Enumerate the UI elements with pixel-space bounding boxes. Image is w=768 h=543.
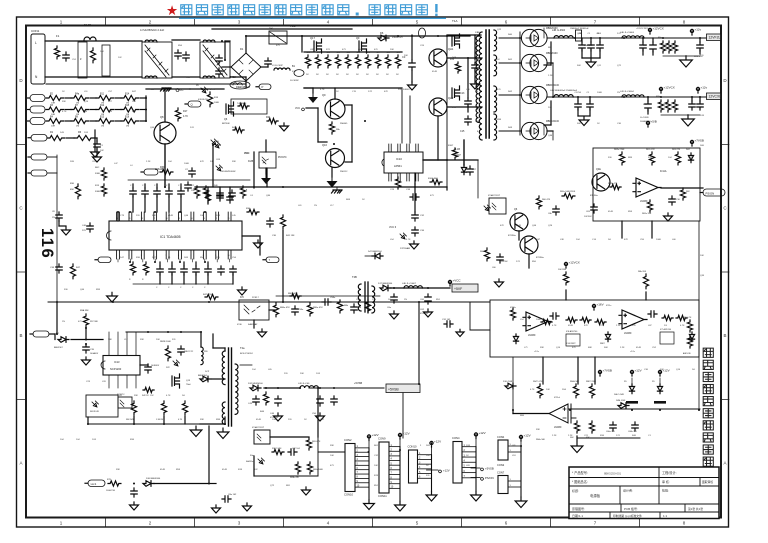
svg-text:IC3A PC817: IC3A PC817	[488, 194, 501, 197]
svg-text:+12VCX R6?q: +12VCX R6?q	[636, 28, 649, 30]
svg-text:10K R80: 10K R80	[558, 269, 567, 271]
svg-text:D1: D1	[240, 47, 244, 51]
svg-text:3: 3	[141, 255, 142, 257]
svg-text:F48 RC48: F48 RC48	[90, 411, 99, 413]
svg-text:PC817: PC817	[252, 297, 259, 299]
svg-text:VCC: VCC	[178, 88, 184, 92]
svg-text:39K: 39K	[134, 395, 138, 397]
svg-text:IC13: IC13	[114, 360, 120, 364]
svg-text:R62a 39K: R62a 39K	[642, 213, 652, 215]
svg-text:12VF2L: 12VF2L	[709, 35, 721, 39]
svg-text:D16 4148: D16 4148	[503, 381, 513, 383]
svg-text:116: 116	[38, 228, 56, 259]
svg-text:MBRF20100: MBRF20100	[546, 85, 560, 87]
svg-text:+12v: +12v	[695, 28, 702, 32]
svg-text:4.1B: 4.1B	[455, 148, 460, 151]
svg-text:1N0EI0uF: 1N0EI0uF	[584, 45, 594, 47]
svg-text:L4E JL-C0604: L4E JL-C0604	[620, 32, 635, 34]
svg-text:10K: 10K	[546, 389, 550, 391]
svg-text:IC10: IC10	[396, 157, 402, 161]
svg-text:R100 36K: R100 36K	[428, 178, 438, 180]
svg-text:T1A: T1A	[452, 19, 458, 23]
svg-text:C13: C13	[460, 92, 465, 95]
svg-text:4148: 4148	[168, 215, 174, 217]
svg-text:1M: 1M	[126, 126, 129, 128]
svg-text:* 产品型号:: * 产品型号:	[572, 470, 588, 475]
svg-text:+12V: +12V	[372, 433, 379, 437]
svg-text:20K: 20K	[660, 369, 664, 371]
svg-text:20K: 20K	[390, 49, 394, 51]
svg-text:B: B	[19, 333, 22, 338]
svg-text:47K: 47K	[584, 325, 588, 327]
svg-text:CON4: CON4	[452, 436, 460, 440]
svg-text:QH2: QH2	[448, 96, 454, 100]
svg-text:日期/1.1: 日期/1.1	[572, 513, 583, 518]
svg-text:39K: 39K	[62, 101, 66, 103]
svg-text:4.7K: 4.7K	[210, 89, 215, 91]
svg-text:R6q: R6q	[658, 37, 662, 39]
svg-text:IC5: IC5	[240, 296, 244, 299]
svg-text:39K: 39K	[116, 469, 120, 471]
svg-text:+VCC: +VCC	[453, 279, 462, 283]
svg-text:+7VSB: +7VSB	[695, 139, 704, 143]
svg-text:1M: 1M	[101, 126, 104, 128]
svg-text:R6C: R6C	[95, 167, 100, 169]
svg-text:17: 17	[153, 218, 155, 220]
svg-text:R60 47K: R60 47K	[542, 199, 551, 201]
svg-text:LM339: LM339	[554, 426, 562, 429]
svg-text:100K: 100K	[656, 239, 662, 241]
svg-text:2.2K: 2.2K	[146, 161, 151, 163]
svg-text:L4E JL-C0607: L4E JL-C0607	[402, 283, 417, 285]
svg-text:BLKLF01: BLKLF01	[279, 126, 288, 128]
svg-text:100K: 100K	[184, 163, 190, 165]
svg-text:CON2: CON2	[497, 463, 505, 467]
svg-text:1.5K R88?: 1.5K R88?	[566, 343, 576, 345]
svg-text:39K: 39K	[140, 339, 144, 341]
svg-text:IC11A: IC11A	[660, 170, 667, 173]
svg-text:LM339: LM339	[528, 334, 536, 337]
svg-text:CON7: CON7	[497, 471, 505, 475]
svg-text:R12: R12	[100, 105, 105, 107]
svg-text:100K: 100K	[272, 419, 278, 421]
svg-text:检验:: 检验:	[662, 488, 669, 493]
svg-text:+12V: +12V	[635, 369, 642, 373]
svg-text:IC11b: IC11b	[510, 307, 516, 309]
svg-text:2.2K: 2.2K	[568, 435, 573, 437]
svg-text:D6M 4148: D6M 4148	[616, 400, 626, 402]
svg-text:D6: D6	[380, 31, 384, 35]
svg-text:4.7K: 4.7K	[306, 59, 311, 61]
svg-text:R63 27K: R63 27K	[672, 149, 681, 151]
svg-text:39K: 39K	[200, 419, 204, 421]
svg-text:10K: 10K	[374, 465, 378, 467]
svg-text:20K: 20K	[548, 107, 552, 109]
svg-text:2.2K: 2.2K	[616, 325, 621, 327]
svg-text:Q10: Q10	[322, 143, 327, 147]
svg-text:+5VSB: +5VSB	[354, 381, 362, 385]
svg-text:BEER164: BEER164	[198, 375, 208, 377]
svg-text:R63b 47K: R63b 47K	[290, 477, 300, 479]
svg-text:1.3K R47: 1.3K R47	[156, 419, 165, 421]
svg-text:R9A 39K: R9A 39K	[80, 309, 89, 312]
svg-text:6: 6	[178, 255, 179, 257]
svg-text:R107: R107	[455, 154, 461, 157]
svg-text:R61 4.7K: R61 4.7K	[646, 149, 655, 151]
svg-text:R17: R17	[183, 110, 188, 113]
svg-text:C6P 104: C6P 104	[292, 448, 301, 450]
svg-text:4.7K: 4.7K	[62, 111, 67, 113]
svg-text:IC11c: IC11c	[606, 305, 612, 307]
svg-text:39K: 39K	[108, 339, 112, 341]
svg-text:20K: 20K	[300, 373, 304, 375]
svg-text:4148/VFUK6W: 4148/VFUK6W	[222, 171, 235, 173]
svg-text:R80a 47K: R80a 47K	[313, 307, 323, 309]
svg-text:14: 14	[190, 218, 192, 220]
svg-text:47K: 47K	[500, 225, 504, 227]
svg-text:+12V: +12V	[443, 469, 450, 473]
svg-text:BEER107: BEER107	[54, 347, 64, 349]
svg-text:L4B JL-0604: L4B JL-0604	[552, 30, 566, 32]
svg-text:+5/B: +5/B	[651, 120, 657, 124]
svg-text:100K: 100K	[214, 102, 220, 104]
svg-text:1N: 1N	[314, 205, 317, 207]
svg-text:R41 13K: R41 13K	[286, 235, 295, 237]
svg-text:470U10V: 470U10V	[420, 313, 429, 315]
svg-text:C58a: C58a	[330, 297, 336, 299]
svg-text:R307 2.7K: R307 2.7K	[272, 448, 282, 450]
svg-text:10UB10V: 10UB10V	[151, 365, 160, 367]
svg-text:+16V: +16V	[597, 303, 604, 307]
svg-text:2/2TRIAM: 2/2TRIAM	[400, 247, 410, 250]
svg-text:BT196a: BT196a	[508, 235, 516, 237]
svg-text:R69q: R69q	[656, 96, 661, 98]
svg-text:A: A	[19, 461, 22, 466]
svg-text:印制线路 (p.p)标准文件: 印制线路 (p.p)标准文件	[613, 514, 642, 518]
svg-text:F1: F1	[56, 34, 60, 38]
svg-text:2NF/C2 22: 2NF/C2 22	[184, 351, 193, 353]
svg-text:2.2K: 2.2K	[552, 435, 557, 437]
svg-text:2: 2	[128, 255, 129, 257]
svg-text:原理图号:: 原理图号:	[572, 506, 585, 511]
svg-text:R107: R107	[448, 145, 454, 147]
svg-text:39K: 39K	[232, 161, 236, 163]
svg-text:R80a 47K: R80a 47K	[288, 293, 298, 295]
svg-text:IC? A5I5740: IC? A5I5740	[660, 328, 672, 331]
svg-text:+7VSB: +7VSB	[603, 369, 612, 373]
svg-text:Q4E: Q4E	[596, 168, 601, 171]
svg-text:CON2: CON2	[344, 438, 352, 442]
svg-text:L49 JL-C0604: L49 JL-C0604	[620, 91, 635, 93]
svg-text:19: 19	[128, 218, 130, 220]
svg-text:T4B3BLK: T4B3BLK	[237, 103, 247, 105]
svg-text:A: A	[723, 461, 726, 466]
svg-text:D30 BEER164: D30 BEER164	[146, 478, 161, 480]
svg-text:R62a 100K/220K: R62a 100K/220K	[560, 191, 576, 193]
svg-text:1UF: 1UF	[84, 132, 89, 134]
svg-text:VCC: VCC	[295, 107, 300, 110]
svg-text:56K: 56K	[604, 347, 608, 349]
svg-text:BCK-P1026J: BCK-P1026J	[240, 353, 253, 355]
svg-text:标题:: 标题:	[572, 488, 579, 493]
svg-text:R4a: R4a	[75, 94, 80, 96]
svg-text:LM339: LM339	[640, 200, 648, 203]
svg-text:C60a 391: C60a 391	[606, 431, 616, 433]
svg-text:+12V: +12V	[434, 440, 441, 444]
svg-text:11: 11	[228, 218, 230, 220]
svg-text:CONb: CONb	[497, 435, 505, 439]
svg-text:IC11d: IC11d	[554, 397, 560, 399]
svg-text:12VCXL: 12VCXL	[709, 94, 722, 98]
svg-text:P: P	[262, 85, 264, 89]
svg-text:PS/ON: PS/ON	[706, 191, 715, 195]
svg-text:39K: 39K	[536, 429, 540, 431]
svg-text:39K: 39K	[330, 445, 334, 447]
svg-text:4.7K: 4.7K	[183, 115, 188, 118]
svg-text:CON9: CON9	[378, 437, 386, 441]
svg-text:4.7K: 4.7K	[166, 395, 171, 397]
svg-text:150uH/PV: 150uH/PV	[392, 36, 403, 39]
svg-text:10K: 10K	[643, 45, 647, 47]
svg-text:R97 98K: R97 98K	[90, 321, 98, 323]
svg-text:7: 7	[190, 255, 191, 257]
svg-text:98K R43: 98K R43	[126, 419, 135, 421]
svg-text:C60b 391: C60b 391	[628, 431, 638, 433]
svg-text:+12v: +12v	[701, 86, 708, 90]
svg-text:R13: R13	[100, 117, 105, 119]
svg-text:L49 JL-C06: L49 JL-C06	[298, 383, 310, 385]
svg-text:+12V: +12V	[403, 432, 410, 436]
svg-text:1UC50V: 1UC50V	[584, 216, 592, 218]
svg-text:13: 13	[203, 218, 205, 220]
svg-text:1N: 1N	[617, 92, 620, 94]
svg-text:1M: 1M	[76, 126, 79, 128]
svg-text:IC3A PC817: IC3A PC817	[252, 426, 265, 429]
svg-text:R6b 20K: R6b 20K	[638, 271, 647, 273]
svg-text:审 核:: 审 核:	[662, 479, 670, 484]
svg-text:1N0EI0uF 1N0EI0uF: 1N0EI0uF 1N0EI0uF	[570, 28, 589, 30]
svg-text:8BK5250-001: 8BK5250-001	[604, 472, 622, 476]
svg-text:2.2K: 2.2K	[548, 75, 553, 77]
svg-text:vcc1: vcc1	[91, 482, 97, 486]
svg-text:1: 1	[116, 255, 117, 257]
svg-text:20K: 20K	[156, 339, 160, 341]
svg-text:+5VSB: +5VSB	[485, 467, 494, 471]
svg-text:R84d 56K: R84d 56K	[570, 381, 580, 383]
svg-text:1UF: 1UF	[216, 215, 221, 217]
svg-text:R62a 100K: R62a 100K	[313, 469, 324, 471]
svg-text:1UF: 1UF	[92, 439, 97, 441]
svg-text:面取审核: 面取审核	[702, 480, 713, 484]
svg-text:R62b 47K: R62b 47K	[608, 183, 618, 185]
svg-text:D6b? 4148: D6b? 4148	[614, 394, 625, 396]
svg-text:1:1: 1:1	[663, 514, 668, 518]
svg-text:68K: 68K	[588, 347, 592, 349]
svg-text:PC817C: PC817C	[278, 157, 287, 159]
svg-text:IC2B: IC2B	[248, 161, 254, 163]
svg-text:VCC: VCC	[244, 152, 249, 155]
svg-text:JL-C0920: JL-C0920	[640, 117, 650, 119]
svg-text:47K: 47K	[200, 161, 204, 163]
svg-text:R84? 4.7K: R84? 4.7K	[533, 381, 543, 383]
svg-text:100K/C36: 100K/C36	[106, 490, 116, 492]
svg-text:4.7uF/250VAC 2.2uF: 4.7uF/250VAC 2.2uF	[140, 28, 165, 32]
svg-text:BT196a: BT196a	[536, 257, 544, 259]
svg-text:* 图纸品名:: * 图纸品名:	[572, 479, 588, 484]
svg-text:BT196a: BT196a	[590, 195, 598, 197]
svg-text:4148: 4148	[216, 145, 222, 147]
svg-text:D32 MURS160: D32 MURS160	[248, 383, 263, 385]
svg-text:+12VCX: +12VCX	[569, 261, 580, 265]
svg-text:4148: 4148	[636, 347, 642, 349]
svg-text:ZD: ZD	[196, 85, 199, 87]
svg-text:MBR20100: MBR20100	[546, 53, 558, 55]
svg-text:4148: 4148	[256, 419, 262, 421]
svg-text:1N: 1N	[62, 321, 65, 323]
svg-text:4148: 4148	[222, 469, 228, 471]
svg-text:100K: 100K	[597, 92, 603, 94]
svg-text:ICE A5I5740: ICE A5I5740	[566, 330, 578, 333]
svg-text:Q9: Q9	[322, 93, 326, 97]
svg-text:CON11: CON11	[378, 494, 387, 498]
svg-text:56K: 56K	[577, 123, 581, 125]
svg-text:2N611C: 2N611C	[340, 171, 348, 173]
svg-text:RB2B 100K: RB2B 100K	[160, 341, 171, 343]
svg-text:56K: 56K	[152, 215, 156, 217]
svg-text:DCP: DCP	[205, 371, 210, 373]
svg-text:IC30: IC30	[237, 324, 242, 326]
svg-text:4.7K: 4.7K	[406, 239, 411, 241]
svg-text:QH1: QH1	[448, 47, 454, 51]
svg-text:5: 5	[166, 255, 167, 257]
svg-text:C15: C15	[460, 130, 465, 133]
svg-text:47K: 47K	[384, 91, 388, 93]
svg-text:R15: R15	[125, 105, 130, 107]
svg-text:R66 4.7K: R66 4.7K	[683, 317, 692, 319]
svg-text:10UA00V: 10UA00V	[90, 352, 99, 355]
svg-text:56K: 56K	[577, 65, 581, 67]
svg-text:530K: 530K	[95, 191, 101, 193]
svg-text:C58a: C58a	[298, 309, 304, 311]
svg-text:100K: 100K	[536, 319, 542, 321]
svg-text:R42 1K: R42 1K	[142, 395, 149, 397]
svg-text:R39: R39	[160, 166, 165, 169]
svg-text:C31 102: C31 102	[442, 319, 451, 321]
svg-text:L6561: L6561	[394, 164, 402, 168]
svg-text:10K: 10K	[700, 255, 704, 257]
svg-text:CON10: CON10	[344, 493, 353, 497]
svg-text:+12V: +12V	[524, 434, 531, 438]
svg-text:电源板: 电源板	[590, 493, 601, 498]
svg-text:KA431aZ: KA431aZ	[246, 460, 255, 463]
svg-text:R84a 56K: R84a 56K	[536, 439, 546, 441]
svg-text:1N: 1N	[404, 299, 407, 301]
svg-text:16: 16	[166, 218, 168, 220]
svg-text:39K: 39K	[540, 347, 544, 349]
svg-text:+5VSB: +5VSB	[388, 387, 399, 391]
svg-text:R86? 220K: R86? 220K	[586, 381, 597, 383]
svg-text:B8T50F: B8T50F	[222, 123, 230, 125]
svg-text:工程/设计:: 工程/设计:	[662, 470, 677, 475]
svg-text:15: 15	[178, 218, 180, 220]
svg-text:10R: 10R	[51, 126, 55, 128]
svg-text:18: 18	[141, 218, 143, 220]
svg-text:4148: 4148	[568, 325, 574, 327]
svg-text:F1 P1: F1 P1	[84, 23, 92, 27]
svg-text:4.7K: 4.7K	[552, 325, 557, 327]
svg-text:220UF400V: 220UF400V	[398, 89, 410, 91]
svg-text:+12V: +12V	[479, 431, 486, 435]
svg-text:Q17: Q17	[310, 36, 315, 40]
svg-text:★: ★	[166, 3, 178, 18]
svg-text:R86a 47K: R86a 47K	[280, 307, 290, 309]
svg-text:PCB 板号:: PCB 板号:	[624, 506, 638, 511]
svg-text:L3 JLC03P: L3 JLC03P	[272, 65, 283, 67]
svg-text:D17 BEER164: D17 BEER164	[378, 283, 393, 285]
svg-text:KA431AZ: KA431AZ	[248, 323, 258, 326]
svg-text:JLC03W: JLC03W	[290, 80, 299, 82]
svg-text:R62b 220K: R62b 220K	[614, 149, 625, 151]
svg-text:47K: 47K	[624, 239, 628, 241]
svg-text:LM339: LM339	[624, 332, 632, 335]
svg-text:+5VF: +5VF	[454, 287, 462, 291]
svg-text:+12VCX: +12VCX	[664, 86, 675, 90]
svg-text:IC1 TDA4605: IC1 TDA4605	[160, 235, 181, 239]
svg-text:T2B: T2B	[352, 275, 357, 279]
svg-text:CON1: CON1	[31, 29, 40, 33]
svg-text:R47 220K: R47 220K	[203, 294, 213, 296]
svg-text:0.7K: 0.7K	[178, 419, 183, 421]
svg-text:12: 12	[215, 218, 217, 220]
svg-text:+12VCX: +12VCX	[653, 27, 664, 31]
svg-text:R14: R14	[125, 94, 130, 96]
svg-text:PS/ON: PS/ON	[485, 476, 494, 480]
svg-text:QF: QF	[356, 36, 360, 40]
svg-text:4/FU8.0W: 4/FU8.0W	[198, 99, 209, 101]
svg-text:10: 10	[228, 255, 230, 257]
svg-text:530K: 530K	[95, 173, 101, 175]
svg-text:B: B	[723, 333, 726, 338]
svg-text:T2a: T2a	[240, 346, 245, 350]
svg-text:R16: R16	[125, 117, 130, 119]
svg-text:20K: 20K	[404, 55, 408, 57]
svg-text:2.2K: 2.2K	[620, 347, 625, 349]
svg-text:CON10: CON10	[408, 445, 417, 449]
svg-text:4148: 4148	[432, 71, 438, 73]
svg-text:4148: 4148	[160, 469, 166, 471]
svg-text:NCP1200: NCP1200	[110, 367, 122, 371]
svg-text:4.7K: 4.7K	[530, 389, 535, 391]
svg-text:4148: 4148	[608, 211, 614, 213]
svg-text:2N6445: 2N6445	[340, 123, 348, 125]
svg-text:100K: 100K	[475, 121, 481, 123]
svg-text:第1张 共1张: 第1张 共1张	[688, 507, 703, 511]
svg-text:4.7K: 4.7K	[320, 89, 325, 91]
svg-text:VCC: VCC	[290, 24, 296, 28]
svg-text:设计者:: 设计者:	[623, 488, 633, 493]
svg-text:1N: 1N	[52, 217, 55, 219]
svg-text:4148: 4148	[516, 225, 522, 227]
svg-text:4.7K: 4.7K	[680, 325, 685, 327]
svg-text:20: 20	[116, 218, 118, 220]
svg-text:10K: 10K	[330, 455, 334, 457]
svg-text:VCC 6: VCC 6	[389, 226, 397, 229]
svg-text:ASI5740: ASI5740	[683, 352, 692, 355]
svg-text:R21: R21	[266, 116, 271, 119]
svg-text:R63 4.7K: R63 4.7K	[312, 441, 321, 443]
svg-text:T4B2: T4B2	[230, 76, 236, 79]
svg-text:Q8: Q8	[160, 115, 164, 119]
